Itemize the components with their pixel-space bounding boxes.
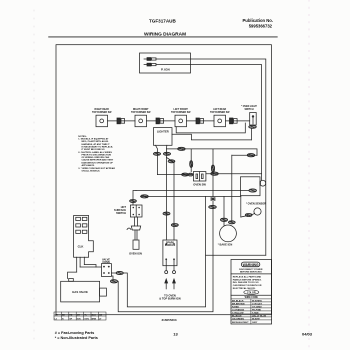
svg-text:IT MUST BE DONE SO: IT MUST BE DONE SO <box>82 149 105 151</box>
junction X near motor <box>211 198 216 201</box>
svg-text:DANGEROUS OPERATION OF: DANGEROUS OPERATION OF <box>82 161 114 164</box>
publication number <box>243 18 273 28</box>
part number <box>162 318 177 322</box>
svg-text:* BAKE IGN: * BAKE IGN <box>218 243 233 247</box>
spark module box <box>163 240 177 266</box>
svg-text:BR-BROWN: BR-BROWN <box>232 303 245 305</box>
color table grid <box>231 299 272 324</box>
connector motor top right <box>228 221 235 224</box>
surface burner switch SW4 <box>214 115 226 127</box>
electrode arrow 1 <box>165 279 168 289</box>
label SW1 <box>92 108 112 114</box>
DSI label <box>102 259 110 265</box>
svg-text:RIGHT FRONT: RIGHT FRONT <box>133 109 149 111</box>
wire switch right <box>206 173 262 175</box>
svg-text:CLK: CLK <box>78 245 84 249</box>
motor label <box>218 243 233 247</box>
center switch label <box>193 183 206 187</box>
footer legend line 2 <box>55 336 98 340</box>
oven control comb body <box>74 216 94 258</box>
wire branch to switch top <box>190 149 192 172</box>
warning divider <box>231 273 272 275</box>
wire lighter branch right <box>167 149 258 155</box>
wire comb to module 1 <box>80 266 101 268</box>
wire motor feed left <box>223 196 225 225</box>
svg-text:WIRING DIAGRAM: WIRING DIAGRAM <box>144 31 186 37</box>
svg-text:GAS VALVE: GAS VALVE <box>72 290 88 294</box>
label S5 <box>241 106 257 111</box>
color table text <box>232 299 267 324</box>
svg-text:BK-BLACK: BK-BLACK <box>232 299 244 302</box>
date code <box>302 332 313 337</box>
svg-text:LEFT REAR: LEFT REAR <box>213 108 226 111</box>
warning subtitle <box>239 269 263 274</box>
svg-text:O-ORANGE: O-ORANGE <box>232 308 245 311</box>
svg-text:GN-GREEN: GN-GREEN <box>232 318 244 320</box>
table header <box>245 297 259 299</box>
svg-text:TOP BURNER SW: TOP BURNER SW <box>131 112 151 114</box>
svg-text:3. * WIRE CODE MAY NOT APPEAR: 3. * WIRE CODE MAY NOT APPEAR <box>78 167 115 170</box>
svg-text:GN: GN <box>99 314 103 316</box>
oven ignitor feed wire <box>133 191 136 206</box>
spark module terminals <box>165 260 176 274</box>
svg-text:BK/W-BLK/WHT: BK/W-BLK/WHT <box>232 322 249 324</box>
ignitor switch label <box>114 206 126 215</box>
notes text block <box>78 136 115 172</box>
svg-text:R-RED: R-RED <box>232 306 239 308</box>
connector on h190 <box>249 189 257 192</box>
svg-text:APPLIANCE.: APPLIANCE. <box>82 164 96 167</box>
connector on switch drop <box>190 161 193 168</box>
oven door frame box <box>241 177 261 196</box>
warning title <box>241 262 259 267</box>
svg-text:COLOR: COLOR <box>247 291 256 294</box>
spark module label <box>165 241 176 247</box>
comb label <box>78 245 84 249</box>
svg-text:OR: OR <box>77 314 81 316</box>
connector on leg2 <box>163 152 170 155</box>
footer legend line 1 <box>55 331 95 335</box>
DSI module box <box>101 264 111 277</box>
wire from light switch down <box>250 128 252 140</box>
connector on module wire 1 <box>163 212 170 215</box>
svg-text:ELECTRICAL SHOCK.: ELECTRICAL SHOCK. <box>233 287 256 290</box>
svg-text:MODULE: MODULE <box>165 244 176 247</box>
lighter label <box>157 130 169 134</box>
label SW2 <box>131 109 151 114</box>
scan artifact dotted line <box>308 0 310 350</box>
connector on leg1 <box>153 152 160 155</box>
connector lower <box>110 280 117 283</box>
svg-text:* = Non-Illustrated Parts: * = Non-Illustrated Parts <box>55 336 98 340</box>
wire h190 <box>136 190 249 192</box>
svg-text:BEFORE SERVICING: BEFORE SERVICING <box>240 272 262 274</box>
ignitor label <box>129 252 142 256</box>
connector J3 <box>196 118 204 124</box>
wire diagonal to module leg <box>167 158 173 162</box>
svg-text:ON ALL MODELS.: ON ALL MODELS. <box>82 169 101 172</box>
connector J4 <box>230 118 238 124</box>
oven sensor circle <box>252 208 262 215</box>
wire comb to valve <box>68 272 77 278</box>
legend table text <box>55 314 103 320</box>
svg-text:ING. FAILURE TO DO SO: ING. FAILURE TO DO SO <box>233 281 259 284</box>
svg-text:13: 13 <box>173 332 178 337</box>
wire comb to module 2 <box>84 265 96 268</box>
oven ignitor tip <box>133 240 139 249</box>
svg-text:WARNING: WARNING <box>243 263 259 267</box>
svg-text:GY-GRAY: GY-GRAY <box>252 305 262 308</box>
svg-text:SWITCH: SWITCH <box>116 212 126 215</box>
spark electrode plug box P1 <box>140 53 191 73</box>
svg-text:* OVEN LIGHT: * OVEN LIGHT <box>241 106 257 108</box>
scan artifact dotted line left <box>33 10 35 345</box>
svg-text:LIGHTER: LIGHTER <box>157 130 169 134</box>
plug contact pin 1 <box>144 58 156 61</box>
plug label <box>161 68 170 72</box>
wire module right <box>111 272 116 274</box>
surface burner switch SW1 <box>96 115 108 127</box>
wire lighter leg 1 <box>156 145 158 174</box>
center oven valve switch <box>193 172 206 181</box>
page number <box>173 332 178 337</box>
svg-text:PANELS BEFORE OPERAT-: PANELS BEFORE OPERAT- <box>233 278 262 281</box>
label SW3 <box>171 109 191 114</box>
svg-text:Y-YELLOW: Y-YELLOW <box>232 312 244 314</box>
wire to spark module terminal 2 <box>173 162 175 241</box>
wire into center switch <box>157 174 193 176</box>
wire module lower <box>111 276 113 281</box>
wire h196 <box>141 195 241 197</box>
svg-text:OVEN SW: OVEN SW <box>193 183 206 187</box>
svg-text:Publication No.: Publication No. <box>243 18 273 23</box>
svg-text:CONN: CONN <box>102 261 110 264</box>
svg-text:V-VIOLET: V-VIOLET <box>252 303 263 305</box>
svg-text:P. IGN: P. IGN <box>161 68 170 72</box>
svg-text:1. MODELS, IF EQUIPPED AT: 1. MODELS, IF EQUIPPED AT <box>78 138 109 141</box>
convection motor <box>220 225 237 242</box>
oven light switch S5 <box>250 113 257 126</box>
wire lighter leg 2 <box>166 145 168 240</box>
wire lighter right <box>172 134 251 140</box>
gas valve label <box>72 290 88 294</box>
connector on module wire 2 <box>171 224 178 227</box>
svg-text:OVEN IGN: OVEN IGN <box>129 252 142 256</box>
svg-text:OVN: OVN <box>84 318 89 320</box>
svg-text:CAUSE IMPROPER AND VERY: CAUSE IMPROPER AND VERY <box>82 159 114 162</box>
connector J2 <box>156 118 164 124</box>
svg-text:W-WHT: W-WHT <box>252 318 260 320</box>
color code heading <box>244 290 259 294</box>
svg-text:BRN: BRN <box>92 318 97 320</box>
svg-text:CAN RESULT IN DEATH OR: CAN RESULT IN DEATH OR <box>233 284 262 287</box>
svg-text:GN/Y: GN/Y <box>252 322 258 324</box>
surface burner switch SW3 <box>175 115 187 127</box>
warning paragraph <box>233 275 262 290</box>
connector on sensor wire <box>245 214 252 217</box>
svg-text:RIGHT REAR: RIGHT REAR <box>95 108 110 111</box>
svg-text:T-TAN: T-TAN <box>252 311 259 314</box>
svg-text:W-WHITE: W-WHITE <box>252 300 262 302</box>
connector on ignitor drop <box>130 200 137 203</box>
wire box3 return loop <box>176 123 245 133</box>
oven ignitor switch box <box>130 205 142 217</box>
table top divider <box>231 294 272 296</box>
surface burner switch SW2 <box>135 115 147 127</box>
svg-text:316055203: 316055203 <box>162 318 177 322</box>
connector on junction vertical <box>211 165 214 172</box>
wire bottom electrode to oven light <box>156 65 262 181</box>
wire light box verticals <box>231 155 233 222</box>
gas valve body <box>61 279 107 302</box>
lighter switch box <box>154 128 173 146</box>
wire sensor feed <box>241 216 248 218</box>
svg-text:& TOP BURN IGN: & TOP BURN IGN <box>159 297 181 301</box>
svg-text:WH: WH <box>55 314 59 316</box>
svg-text:TOP BURNER SW: TOP BURNER SW <box>92 112 112 114</box>
connector motor top <box>220 218 227 221</box>
svg-text:PK-PINK: PK-PINK <box>252 309 261 311</box>
svg-text:BL-BLUE: BL-BLUE <box>232 315 242 317</box>
schematic outer frame <box>56 45 271 315</box>
svg-text:HARNESS, AT ANY TIME IT: HARNESS, AT ANY TIME IT <box>82 143 111 146</box>
title model number <box>149 19 176 24</box>
heading WIRING DIAGRAM <box>144 31 186 37</box>
wire burner row <box>108 120 136 122</box>
connector on h196 <box>141 195 149 198</box>
svg-text:IS NECESSARY TO REPLACE,: IS NECESSARY TO REPLACE, <box>82 145 114 148</box>
electrode label <box>159 294 181 301</box>
svg-text:04/03: 04/03 <box>302 332 313 337</box>
connector right of module <box>116 271 123 274</box>
connector right of switch <box>211 172 219 175</box>
warning box <box>231 260 272 325</box>
svg-text:2. CAUTION: LABEL ALL WIRES: 2. CAUTION: LABEL ALL WIRES <box>78 151 112 154</box>
plug contact pin 2 <box>144 63 156 66</box>
electrode arrow 2 <box>173 279 176 289</box>
svg-text:SWITCH: SWITCH <box>244 109 253 111</box>
connector J1 <box>117 118 125 124</box>
connector below junction <box>209 205 217 208</box>
connector on branch <box>178 147 186 150</box>
svg-text:REPLACE ALL PARTS AND: REPLACE ALL PARTS AND <box>233 275 262 278</box>
wire junction vertical / outer loop <box>118 149 213 312</box>
svg-text:* OVEN SENSOR: * OVEN SENSOR <box>246 203 266 206</box>
svg-text:BK: BK <box>62 314 66 316</box>
svg-text:LBL-LT BLUE: LBL-LT BLUE <box>252 315 267 317</box>
oven ignitor stem <box>127 217 141 240</box>
label SW4 <box>210 108 230 114</box>
oven light bulb <box>260 180 266 186</box>
connector below light switch <box>249 125 257 128</box>
svg-text:IGN: IGN <box>77 318 81 320</box>
connector on h155 <box>247 154 255 157</box>
svg-text:TGF317AUB: TGF317AUB <box>149 19 176 24</box>
connector pair left of switch <box>182 173 189 176</box>
legend table bottom left <box>54 312 106 320</box>
wire top electrode to right side <box>156 59 266 255</box>
connector leg2 joint <box>168 160 175 163</box>
heading underline <box>49 36 278 38</box>
wire outer loop top branch <box>206 254 266 256</box>
comb legs <box>77 257 85 272</box>
svg-text:# = Fast-moving Parts: # = Fast-moving Parts <box>55 331 95 335</box>
svg-text:5995366732: 5995366732 <box>249 23 273 28</box>
svg-text:BLU: BLU <box>92 314 97 316</box>
wire inner loop <box>124 196 206 307</box>
svg-text:LEFT FRONT: LEFT FRONT <box>174 109 189 111</box>
wire h155 <box>232 154 257 156</box>
svg-text:RD: RD <box>69 314 73 316</box>
sensor label <box>246 203 266 206</box>
svg-text:OF WIRING. ERRORS CAN: OF WIRING. ERRORS CAN <box>82 156 110 159</box>
svg-text:MFG, PLANT WITH ALUM.: MFG, PLANT WITH ALUM. <box>82 140 109 143</box>
svg-text:TOP BURNER SW: TOP BURNER SW <box>171 112 191 114</box>
svg-text:TOP BURNER SW: TOP BURNER SW <box>210 112 230 114</box>
